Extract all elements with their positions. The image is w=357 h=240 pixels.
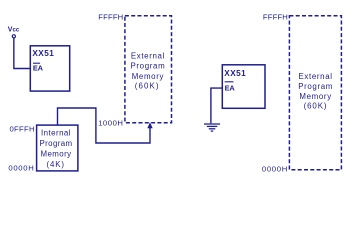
svg-text:External: External: [299, 72, 333, 81]
svg-text:FFFFH: FFFFH: [98, 12, 123, 21]
svg-text:EA: EA: [225, 83, 236, 92]
svg-text:cc: cc: [13, 27, 20, 33]
svg-text:0000H: 0000H: [262, 165, 288, 174]
svg-text:Internal: Internal: [41, 129, 71, 138]
svg-text:(60K): (60K): [135, 82, 160, 91]
svg-text:(4K): (4K): [46, 160, 65, 169]
svg-text:Program: Program: [130, 62, 165, 71]
svg-text:(60K): (60K): [304, 102, 328, 111]
svg-text:EA: EA: [33, 63, 44, 72]
svg-text:1000H: 1000H: [98, 119, 123, 128]
svg-text:External: External: [131, 51, 165, 60]
svg-text:0000H: 0000H: [8, 164, 34, 173]
svg-text:Memory: Memory: [299, 92, 331, 101]
svg-text:Memory: Memory: [132, 72, 164, 81]
svg-text:Program: Program: [39, 139, 72, 148]
svg-text:FFFFH: FFFFH: [263, 13, 288, 22]
svg-text:Program: Program: [298, 82, 333, 91]
svg-text:XX51: XX51: [32, 49, 54, 58]
svg-text:Memory: Memory: [41, 150, 72, 159]
svg-text:0FFFH: 0FFFH: [9, 125, 34, 134]
svg-text:XX51: XX51: [224, 69, 246, 78]
